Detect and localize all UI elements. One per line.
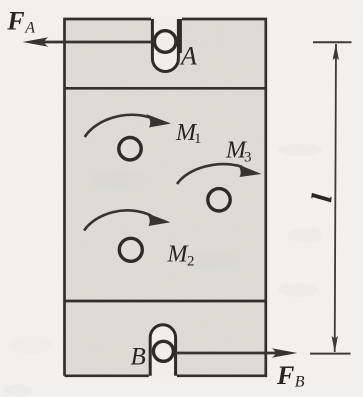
bottom slot hole (150, 325, 175, 378)
dimension bottom tick (310, 353, 351, 355)
force FA arrowhead (23, 37, 49, 47)
moment M1 arc (85, 115, 151, 137)
dimension top tick (313, 41, 352, 43)
moment M2 arrowhead (146, 213, 171, 227)
slot A outline (152, 19, 178, 72)
moment M3 circle (208, 189, 230, 211)
pin A (154, 31, 176, 53)
plate body fill (65, 19, 266, 376)
force FB arrowhead (272, 348, 298, 358)
moment M2 arc (84, 210, 151, 230)
force FB line (164, 352, 278, 355)
plate border (65, 19, 266, 376)
dimension line (335, 44, 336, 352)
pin B (153, 341, 173, 361)
dimension arrow down (332, 336, 338, 352)
top slot hole (light background shows through) (152, 17, 178, 72)
force FA line (42, 41, 165, 44)
moment M1 arrowhead (146, 114, 171, 128)
dimension arrow up (333, 44, 339, 61)
divider line 2 (65, 300, 266, 303)
slot B outline (150, 325, 175, 376)
moment M1 circle (119, 138, 141, 160)
faint scan smudges (4, 144, 323, 396)
moment M3 arrowhead (237, 164, 262, 177)
moment M3 arc (177, 164, 242, 184)
moment M2 circle (119, 238, 142, 261)
divider line 1 (65, 87, 266, 90)
notch right wall (double line) (179, 19, 182, 53)
